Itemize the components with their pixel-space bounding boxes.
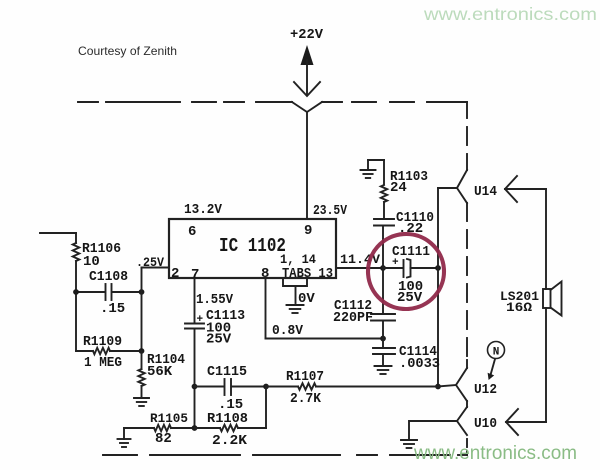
svg-text:9: 9 bbox=[304, 223, 312, 239]
svg-text:10: 10 bbox=[83, 254, 100, 270]
svg-text:U12: U12 bbox=[474, 382, 497, 398]
svg-text:23.5V: 23.5V bbox=[313, 203, 347, 219]
svg-text:.25V: .25V bbox=[136, 256, 164, 270]
svg-text:C1115: C1115 bbox=[207, 364, 247, 380]
svg-text:1, 14: 1, 14 bbox=[280, 252, 316, 267]
svg-text:220PF: 220PF bbox=[333, 310, 373, 326]
svg-text:www.entronics.com: www.entronics.com bbox=[413, 442, 577, 464]
svg-text:IC 1102: IC 1102 bbox=[219, 235, 286, 257]
svg-text:16Ω: 16Ω bbox=[506, 300, 532, 315]
svg-text:.15: .15 bbox=[100, 301, 125, 317]
svg-text:2.7K: 2.7K bbox=[290, 391, 322, 407]
svg-text:8: 8 bbox=[261, 266, 269, 282]
svg-text:N: N bbox=[493, 347, 500, 359]
svg-text:+22V: +22V bbox=[290, 27, 324, 43]
svg-text:2: 2 bbox=[171, 266, 179, 282]
svg-text:2.2K: 2.2K bbox=[212, 433, 248, 449]
svg-text:24: 24 bbox=[390, 180, 407, 196]
svg-text:1.55V: 1.55V bbox=[196, 292, 234, 308]
svg-text:25V: 25V bbox=[206, 332, 232, 348]
svg-text:R1105: R1105 bbox=[150, 411, 188, 426]
svg-text:0V: 0V bbox=[298, 291, 315, 307]
svg-text:6: 6 bbox=[188, 224, 196, 240]
svg-text:7: 7 bbox=[191, 267, 199, 283]
svg-text:U14: U14 bbox=[474, 184, 497, 200]
svg-text:Courtesy of Zenith: Courtesy of Zenith bbox=[78, 44, 177, 58]
svg-text:www.entronics.com: www.entronics.com bbox=[423, 4, 597, 24]
svg-text:1 MEG: 1 MEG bbox=[84, 355, 122, 371]
svg-text:R1109: R1109 bbox=[83, 334, 122, 350]
svg-text:R1107: R1107 bbox=[286, 369, 324, 385]
svg-text:TABS 13: TABS 13 bbox=[282, 266, 333, 282]
svg-text:+: + bbox=[197, 314, 204, 326]
svg-text:.0033: .0033 bbox=[399, 356, 440, 372]
svg-text:82: 82 bbox=[155, 431, 172, 447]
svg-text:0.8V: 0.8V bbox=[272, 323, 304, 339]
svg-text:56K: 56K bbox=[147, 364, 173, 380]
svg-text:13.2V: 13.2V bbox=[184, 202, 223, 218]
svg-text:C1111: C1111 bbox=[392, 244, 430, 260]
svg-text:U10: U10 bbox=[474, 416, 497, 432]
svg-text:C1108: C1108 bbox=[89, 269, 128, 285]
svg-text:25V: 25V bbox=[397, 290, 423, 306]
svg-text:R1108: R1108 bbox=[207, 411, 248, 427]
